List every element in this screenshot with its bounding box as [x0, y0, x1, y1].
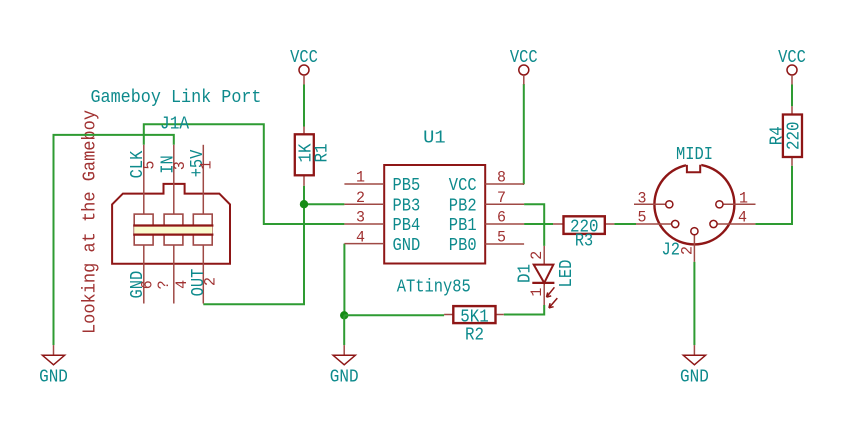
- svg-text:PB1: PB1: [449, 216, 477, 236]
- svg-text:GND: GND: [330, 367, 359, 387]
- svg-text:2: 2: [356, 189, 365, 207]
- svg-text:220: 220: [785, 122, 805, 151]
- svg-text:J2: J2: [662, 241, 681, 261]
- svg-text:?: ?: [155, 280, 173, 289]
- connector J2 notch mask: [686, 161, 701, 171]
- svg-text:Gameboy Link Port: Gameboy Link Port: [91, 88, 262, 108]
- wire GND rail to IN pin: [54, 135, 174, 345]
- connector J1A pin 4: [173, 245, 175, 304]
- svg-text:VCC: VCC: [510, 48, 538, 68]
- svg-text:GND: GND: [393, 236, 421, 256]
- svg-text:R4: R4: [768, 126, 788, 145]
- power symbol VCC3: [778, 48, 806, 85]
- U1 pin 4: [344, 243, 384, 245]
- svg-text:VCC: VCC: [449, 176, 477, 196]
- LED D1 arrow 2: [549, 298, 557, 308]
- svg-text:1: 1: [528, 288, 546, 297]
- svg-text:5: 5: [141, 161, 159, 170]
- svg-text:PB3: PB3: [393, 196, 421, 216]
- U1 pin 5: [485, 243, 524, 245]
- U1 pin 3: [344, 223, 384, 225]
- wire R4 to VCC3: [791, 85, 793, 107]
- wire junction B to GND2: [343, 315, 345, 345]
- svg-text:3: 3: [356, 209, 365, 227]
- svg-text:5: 5: [638, 209, 647, 227]
- svg-text:J1A: J1A: [160, 115, 189, 135]
- connector J1A pin 6 GND: [143, 245, 145, 304]
- svg-text:5: 5: [497, 229, 506, 247]
- svg-text:GND: GND: [680, 367, 709, 387]
- svg-text:MIDI: MIDI: [676, 145, 713, 165]
- connector J2 notch: [687, 165, 700, 173]
- resistor R3: [553, 216, 614, 251]
- svg-text:2: 2: [528, 251, 546, 260]
- svg-text:GND: GND: [39, 367, 68, 387]
- wire VCC1 to R1: [303, 85, 305, 127]
- svg-text:7: 7: [497, 189, 506, 207]
- svg-text:6: 6: [497, 209, 506, 227]
- connector J1A pin 2 OUT: [202, 245, 204, 304]
- J2 pin 1: [723, 203, 756, 205]
- J2 pin 5: [636, 223, 672, 225]
- J2 pin 2: [693, 235, 695, 262]
- U1 pin 1: [344, 183, 384, 185]
- svg-text:1: 1: [198, 161, 216, 170]
- IC U1 body: [384, 165, 485, 264]
- wire R2 to LED cathode: [504, 305, 544, 315]
- J2 pin 4: [717, 223, 755, 225]
- resistor R2: [444, 306, 504, 345]
- power symbol VCC2: [510, 48, 538, 85]
- svg-text:U1: U1: [423, 129, 446, 149]
- wire VCC2 to U1 pin 8: [523, 84, 525, 184]
- junction B: [340, 311, 348, 319]
- wire CLK to PB4: [144, 124, 345, 224]
- J2 pin 3: [634, 203, 666, 205]
- connector J1A pin 5 CLK: [143, 145, 145, 214]
- U1 pin 8: [485, 183, 524, 185]
- svg-text:4: 4: [738, 209, 747, 227]
- svg-text:PB5: PB5: [393, 176, 421, 196]
- wire junction A to PB3: [304, 203, 344, 205]
- svg-text:R2: R2: [465, 325, 484, 345]
- U1 pin 2: [344, 203, 384, 205]
- connector J1A pin 3 IN: [173, 145, 175, 214]
- svg-text:1: 1: [356, 169, 365, 187]
- svg-text:R3: R3: [575, 232, 593, 252]
- svg-text:3: 3: [638, 189, 647, 207]
- svg-text:8: 8: [497, 169, 506, 187]
- resistor R1: [295, 127, 333, 186]
- wire junction B to R2: [344, 314, 444, 316]
- connector J1A slot bar top edge: [133, 224, 213, 226]
- svg-text:PB2: PB2: [449, 196, 477, 216]
- LED D1: [516, 246, 577, 308]
- wire MIDI pin 4 to R4: [755, 166, 792, 224]
- svg-text:2: 2: [678, 246, 696, 255]
- ground GND3: [680, 345, 709, 387]
- LED D1 arrow 1: [547, 287, 555, 297]
- svg-text:Looking at the Gameboy: Looking at the Gameboy: [80, 110, 100, 334]
- junction A: [300, 200, 308, 208]
- connector J2 MIDI circle: [654, 164, 734, 244]
- U1 pin 7: [485, 203, 524, 205]
- power symbol VCC1: [290, 48, 318, 85]
- wire R3 to MIDI pin 5: [614, 223, 636, 225]
- wire U1 pin 6 to R3: [524, 223, 553, 225]
- svg-text:ATtiny85: ATtiny85: [397, 278, 471, 298]
- svg-text:6: 6: [139, 280, 157, 289]
- svg-text:VCC: VCC: [290, 48, 318, 68]
- svg-text:D1: D1: [516, 264, 536, 283]
- connector J1A slot bar: [134, 226, 212, 235]
- svg-text:R1: R1: [312, 144, 332, 163]
- svg-text:LED: LED: [557, 260, 577, 288]
- svg-text:2: 2: [202, 277, 220, 286]
- wire R1 to junction A: [303, 186, 305, 204]
- ground GND2: [330, 345, 359, 387]
- wire U1 pin 4 to junction B: [343, 244, 345, 316]
- svg-text:4: 4: [356, 228, 365, 246]
- wire MIDI pin 2 to GND3: [693, 262, 695, 345]
- connector J1A pad box 1: [134, 214, 153, 245]
- ground GND1: [39, 345, 68, 387]
- U1 pin 6: [485, 223, 524, 225]
- connector J1A outline: [112, 184, 230, 264]
- resistor R4: [768, 106, 805, 165]
- svg-text:VCC: VCC: [778, 48, 806, 68]
- wire OUT to junction A: [203, 204, 304, 304]
- svg-text:PB4: PB4: [393, 216, 421, 236]
- connector J1A pad box 3: [193, 214, 212, 245]
- wire U1 pin 7 to LED: [524, 204, 544, 246]
- connector J1A slot bar bottom edge: [133, 234, 213, 236]
- svg-text:3: 3: [171, 161, 189, 170]
- svg-text:PB0: PB0: [449, 236, 477, 256]
- connector J1A pad box 2: [164, 214, 183, 245]
- connector J1A pin 1 +5V: [202, 145, 204, 214]
- svg-text:1: 1: [739, 189, 748, 207]
